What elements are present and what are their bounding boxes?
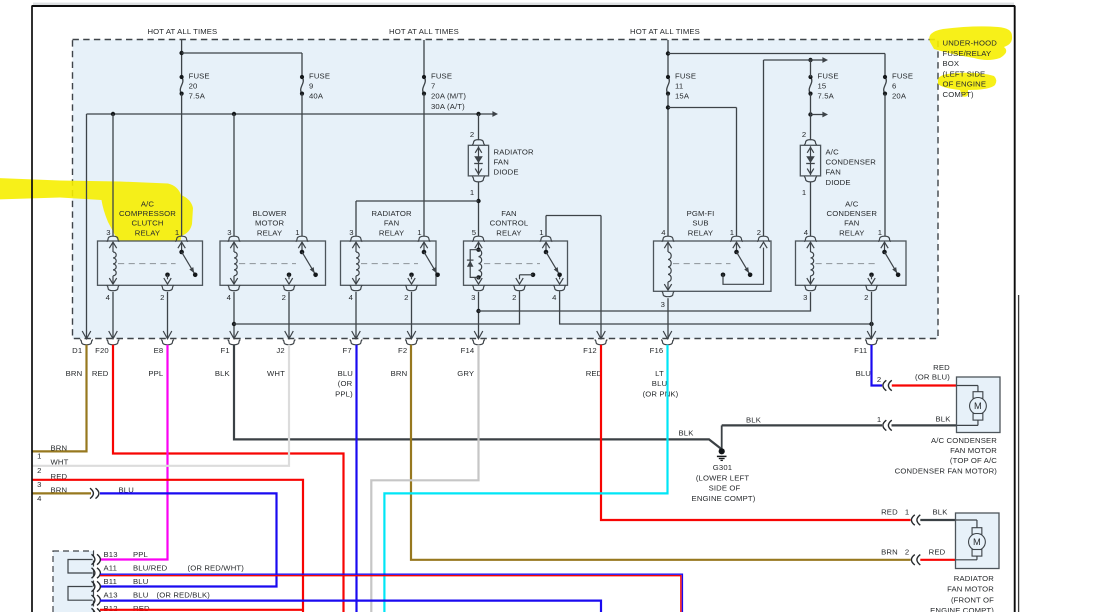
highlight: A/C compressor clutch relay label (marker stroke from left margin) [0,178,193,251]
wire: fuse 6 to A/C condenser fan relay pin 1 [884,94,886,237]
svg-text:RADIATOR: RADIATOR [494,147,535,156]
connector D1 [72,331,93,355]
wire BLU: F7 down off page [355,345,357,612]
connector F2 [398,331,418,355]
connector J2 [276,331,295,355]
svg-text:RELAY: RELAY [688,228,713,237]
svg-text:COMPT): COMPT) [943,90,975,99]
svg-text:20: 20 [189,82,198,91]
svg-text:J2: J2 [276,346,284,355]
wire: A/C condenser relay pin 2 to F11 [871,292,873,339]
svg-text:FUSE/RELAY: FUSE/RELAY [943,49,992,58]
connector F20 [95,331,119,355]
wire: radiator fan relay pin 4 to F7 [355,292,357,339]
svg-text:FAN: FAN [844,219,859,228]
svg-text:40A: 40A [309,92,324,101]
svg-text:FUSE: FUSE [675,71,696,80]
svg-text:BRN: BRN [391,369,408,378]
relay: radiator fan relay [341,209,440,302]
svg-text:RED: RED [929,547,946,556]
ground G301 [692,425,756,502]
svg-text:BOX: BOX [943,59,960,68]
svg-text:PPL: PPL [148,369,164,378]
connector 1 (A/C condenser fan motor, BLK) [877,415,951,431]
svg-text:4: 4 [106,293,111,302]
svg-text:2: 2 [160,293,164,302]
svg-text:MOTOR: MOTOR [255,219,285,228]
wire: fan control pin 4 to F11 column [560,292,874,326]
fuse 7 (20A M/T, 30A A/T) [422,71,466,110]
svg-text:15A: 15A [675,92,690,101]
svg-text:BLU: BLU [133,577,148,586]
connector 1 (radiator fan motor, BLK) [881,508,955,526]
svg-text:RELAY: RELAY [839,228,864,237]
wire: fuse 15 lower branch with arrow, to A/C condenser fan diode [808,60,828,140]
wire BLK: F1 to ground G301 [234,345,722,450]
svg-text:ENGINE COMPT): ENGINE COMPT) [930,606,994,612]
svg-text:(FRONT OF: (FRONT OF [951,595,994,604]
svg-text:7.5A: 7.5A [189,92,206,101]
svg-text:RED: RED [933,363,950,372]
wire: hot bus at y114 with continuation arrow [87,111,499,338]
svg-text:3: 3 [37,480,41,489]
highlight: under-hood fuse/relay box label [929,26,1012,96]
svg-text:FAN: FAN [826,168,841,177]
relay: A/C condenser fan relay [796,199,907,302]
svg-text:B13: B13 [104,550,118,559]
svg-text:FAN: FAN [501,209,516,218]
svg-text:HOT AT ALL TIMES: HOT AT ALL TIMES [147,27,217,36]
svg-text:A/C: A/C [141,199,155,208]
svg-text:BRN: BRN [51,443,68,452]
svg-text:F11: F11 [854,346,867,355]
wire RED: engine row 3 down off page [32,480,303,612]
svg-text:3: 3 [106,228,110,237]
svg-text:FAN: FAN [384,219,399,228]
svg-text:F20: F20 [95,346,109,355]
svg-text:15: 15 [818,82,827,91]
svg-text:11: 11 [675,82,683,91]
svg-text:F7: F7 [343,346,352,355]
connector: row 4 inline connector [90,488,99,498]
svg-text:DIODE: DIODE [494,168,519,177]
svg-text:1: 1 [878,228,882,237]
svg-text:PGM-FI: PGM-FI [687,209,715,218]
fuse 6 (20A) [883,71,913,100]
wire: A/C compressor relay pin 2 to E8 [167,292,169,339]
connector 2 (A/C condenser fan motor, RED) [877,363,957,391]
connector F7 [343,331,363,355]
svg-text:FUSE: FUSE [818,71,839,80]
connector 2 (radiator fan motor, RED) [881,547,955,565]
svg-text:2: 2 [905,547,909,556]
svg-text:RED: RED [881,508,898,517]
svg-text:3: 3 [661,300,665,309]
svg-text:G301: G301 [713,463,732,472]
connector F1 [221,331,241,355]
wire: fuse 11 junction to PGM-FI pins 4 and 1 [666,94,737,237]
svg-text:B11: B11 [104,577,118,586]
svg-text:A/C: A/C [845,199,859,208]
relay: fan control relay [464,209,568,302]
svg-text:GRY: GRY [457,369,474,378]
under-hood fuse/relay box outline [73,40,939,339]
relay: PGM-FI sub relay [654,209,772,309]
wire: blower pin 4 to F1 with junction [232,292,236,339]
svg-text:6: 6 [892,82,896,91]
wire RED: F12 to radiator fan motor connector [601,345,911,520]
svg-text:OF ENGINE: OF ENGINE [943,80,987,89]
wire GRY: F14 down off page [371,345,478,612]
wire RED: B12 [100,609,303,611]
svg-text:RED: RED [92,369,109,378]
diode: radiator fan diode [468,130,534,197]
svg-text:4: 4 [349,293,354,302]
svg-text:(OR BLU): (OR BLU) [915,372,950,381]
svg-text:BLK: BLK [933,508,949,517]
fuse 15 (7.5A) [808,71,838,100]
svg-text:BLU/RED: BLU/RED [133,564,168,573]
svg-text:BLK: BLK [746,415,762,424]
wire: fan control pin 3 to F14, junction to A/C condenser pin 3 [476,292,810,339]
svg-text:FUSE: FUSE [309,71,330,80]
svg-text:(LOWER LEFT: (LOWER LEFT [696,473,749,482]
wire: radiator fan diode to relay pins (junction) [356,182,481,237]
motor M1: A/C condenser fan motor [895,377,1000,475]
svg-text:2: 2 [470,130,474,139]
svg-text:PPL): PPL) [335,389,353,398]
svg-text:2: 2 [512,293,516,302]
svg-text:HOT AT ALL TIMES: HOT AT ALL TIMES [389,27,459,36]
connector F12 [583,331,607,355]
svg-text:30A (A/T): 30A (A/T) [431,102,465,111]
svg-text:20A: 20A [892,92,907,101]
svg-text:RADIATOR: RADIATOR [371,209,412,218]
wire: PGM-FI pin 3 to F16 [667,298,669,338]
svg-text:FAN MOTOR: FAN MOTOR [947,585,994,594]
svg-text:1: 1 [37,452,41,461]
svg-text:F2: F2 [398,346,407,355]
svg-text:2: 2 [802,130,806,139]
svg-text:WHT: WHT [267,369,285,378]
svg-text:2: 2 [864,293,868,302]
wire BLU: A13 off page [100,601,601,612]
wire: right hot feed to fuses 11 and 6 [666,40,885,77]
svg-text:(LEFT SIDE: (LEFT SIDE [943,69,986,78]
connector F14 [461,331,485,355]
relay: A/C compressor clutch relay [98,199,203,302]
svg-text:ENGINE COMPT): ENGINE COMPT) [692,494,756,503]
svg-text:2: 2 [877,375,881,384]
svg-text:BLU: BLU [652,379,667,388]
svg-text:RADIATOR: RADIATOR [954,574,995,583]
svg-text:(OR PNK): (OR PNK) [643,389,679,398]
svg-text:(OR RED/WHT): (OR RED/WHT) [188,564,245,573]
relay: blower motor relay [220,209,326,302]
svg-text:RELAY: RELAY [257,228,282,237]
svg-text:F16: F16 [650,346,664,355]
svg-text:1: 1 [295,228,299,237]
wire: bus drop to radiator fan diode [478,114,480,140]
svg-text:A11: A11 [104,564,118,573]
wire BLK: ground bus to A/C condenser fan motor [679,415,957,437]
svg-text:SUB: SUB [692,219,708,228]
wire BRN/BLU: engine row 4 to connector B11 [32,493,277,586]
wire: fuse 20 to A/C compressor relay pin 1 [181,94,183,237]
svg-text:7: 7 [431,82,435,91]
svg-text:FAN MOTOR: FAN MOTOR [950,446,997,455]
connector F11 [854,331,878,355]
wire BLU: F11 to A/C condenser fan motor connector [872,345,883,386]
svg-text:SIDE OF: SIDE OF [709,484,741,493]
svg-text:A/C CONDENSER: A/C CONDENSER [931,436,997,445]
svg-text:3: 3 [803,293,807,302]
svg-text:BLOWER: BLOWER [252,209,287,218]
svg-text:3: 3 [227,228,231,237]
wire: left hot feed to fuses 20 and 9 [179,40,302,77]
node: HOT AT ALL TIMES (left) [147,27,217,36]
svg-text:M: M [973,537,981,547]
wire: bus drop to A/C compressor relay pin 3 [112,114,114,236]
svg-text:2: 2 [404,293,408,302]
svg-text:2: 2 [757,228,761,237]
svg-text:4: 4 [661,228,666,237]
svg-text:2: 2 [282,293,286,302]
node: under-hood fuse/relay box label [943,39,998,99]
svg-text:4: 4 [227,293,232,302]
svg-text:1: 1 [905,508,909,517]
motor M2: radiator fan motor [930,513,999,612]
wire WHT: J2 to engine row 2 [32,345,289,466]
svg-text:FAN: FAN [494,158,509,167]
svg-text:BRN: BRN [881,547,898,556]
svg-text:4: 4 [804,228,809,237]
svg-text:RELAY: RELAY [379,228,404,237]
svg-text:M: M [974,401,982,411]
diode: A/C condenser fan diode [800,130,876,197]
svg-text:3: 3 [349,228,353,237]
node: engine harness rows 1-4 [37,443,134,503]
svg-text:1: 1 [730,228,734,237]
fuse 11 (15A) [666,71,696,100]
wire: A/C compressor relay pin 4 to F20 [112,292,114,339]
fuse 9 (40A) [300,71,330,100]
svg-text:BLK: BLK [215,369,231,378]
wire: fan control pin 2 to F1 column [234,292,520,324]
connector F16 [650,331,674,355]
wire PPL: E8 to connector B13 [100,345,168,560]
svg-text:CONDENSER: CONDENSER [826,158,877,167]
connector E8 [154,331,174,355]
svg-text:1: 1 [802,188,806,197]
svg-text:BLU: BLU [133,591,148,600]
svg-text:BLU: BLU [338,369,353,378]
svg-text:RELAY: RELAY [496,228,521,237]
wire: fuse 7 to radiator fan relay pin 1 [423,94,425,237]
svg-text:CONDENSER FAN MOTOR): CONDENSER FAN MOTOR) [895,466,998,475]
svg-text:A13: A13 [104,591,118,600]
svg-text:BRN: BRN [66,369,83,378]
wire: fuse 15 top branch to PGM-FI pin 2 with arrow [764,57,829,236]
svg-text:5: 5 [472,228,476,237]
svg-text:(TOP OF A/C: (TOP OF A/C [950,456,997,465]
svg-text:FUSE: FUSE [431,71,452,80]
svg-text:COMPRESSOR: COMPRESSOR [119,209,176,218]
svg-text:D1: D1 [72,346,82,355]
svg-text:4: 4 [37,494,42,503]
svg-text:HOT AT ALL TIMES: HOT AT ALL TIMES [630,27,700,36]
svg-text:1: 1 [175,228,179,237]
wire: blower pin 2 to J2 [288,292,290,339]
wire BRN: D1 to engine row 1 [32,345,87,452]
svg-text:A/C: A/C [826,147,840,156]
svg-text:RELAY: RELAY [135,228,160,237]
svg-text:LT: LT [655,369,664,378]
svg-text:DIODE: DIODE [826,178,851,187]
svg-text:20A (M/T): 20A (M/T) [431,92,466,101]
svg-text:(OR: (OR [338,379,353,388]
svg-text:UNDER-HOOD: UNDER-HOOD [943,39,998,48]
wire color labels [66,369,871,399]
svg-text:F1: F1 [221,346,230,355]
svg-text:FUSE: FUSE [189,71,210,80]
wire: middle hot feed to fuse 7 [423,40,425,77]
wire: fuse 9 to blower relay pin 1 [301,94,303,237]
svg-text:F14: F14 [461,346,475,355]
wire RED: F20 down and right off page [113,345,344,612]
wire BLU/RED: A11 off page [100,574,682,612]
svg-text:BLK: BLK [679,429,695,438]
svg-text:FUSE: FUSE [892,71,913,80]
svg-text:1: 1 [417,228,421,237]
svg-text:F12: F12 [583,346,597,355]
svg-text:3: 3 [471,293,475,302]
svg-text:1: 1 [877,415,881,424]
svg-text:E8: E8 [154,346,164,355]
wire: radiator fan relay pin 2 to F2 [411,292,413,339]
svg-text:7.5A: 7.5A [818,92,835,101]
svg-text:BLK: BLK [936,415,952,424]
svg-text:2: 2 [37,466,41,475]
node: HOT AT ALL TIMES (middle) [389,27,459,36]
svg-text:1: 1 [539,228,543,237]
node: HOT AT ALL TIMES (right) [630,27,700,36]
wire: bus drop to blower relay pin 3 [233,114,235,236]
svg-text:CLUTCH: CLUTCH [131,219,163,228]
svg-text:CONTROL: CONTROL [490,219,529,228]
svg-text:1: 1 [470,188,474,197]
wire BRN: F2 to radiator fan motor connector [411,345,911,560]
connector block B13/A11/B11/A13/B12 [53,550,244,612]
wire: fan control relay pin 1 loop to F12 [546,216,601,339]
svg-text:CONDENSER: CONDENSER [827,209,878,218]
svg-text:BLU: BLU [856,369,871,378]
fuse 20 (7.5A) [180,71,210,100]
svg-text:(OR RED/BLK): (OR RED/BLK) [157,591,211,600]
wire: A/C condenser fan diode to relay pin 4 [810,182,812,237]
svg-text:9: 9 [309,82,313,91]
svg-text:PPL: PPL [133,550,149,559]
svg-text:WHT: WHT [51,458,69,467]
svg-text:4: 4 [552,293,557,302]
wire LT BLU: F16 down off page [384,345,667,612]
